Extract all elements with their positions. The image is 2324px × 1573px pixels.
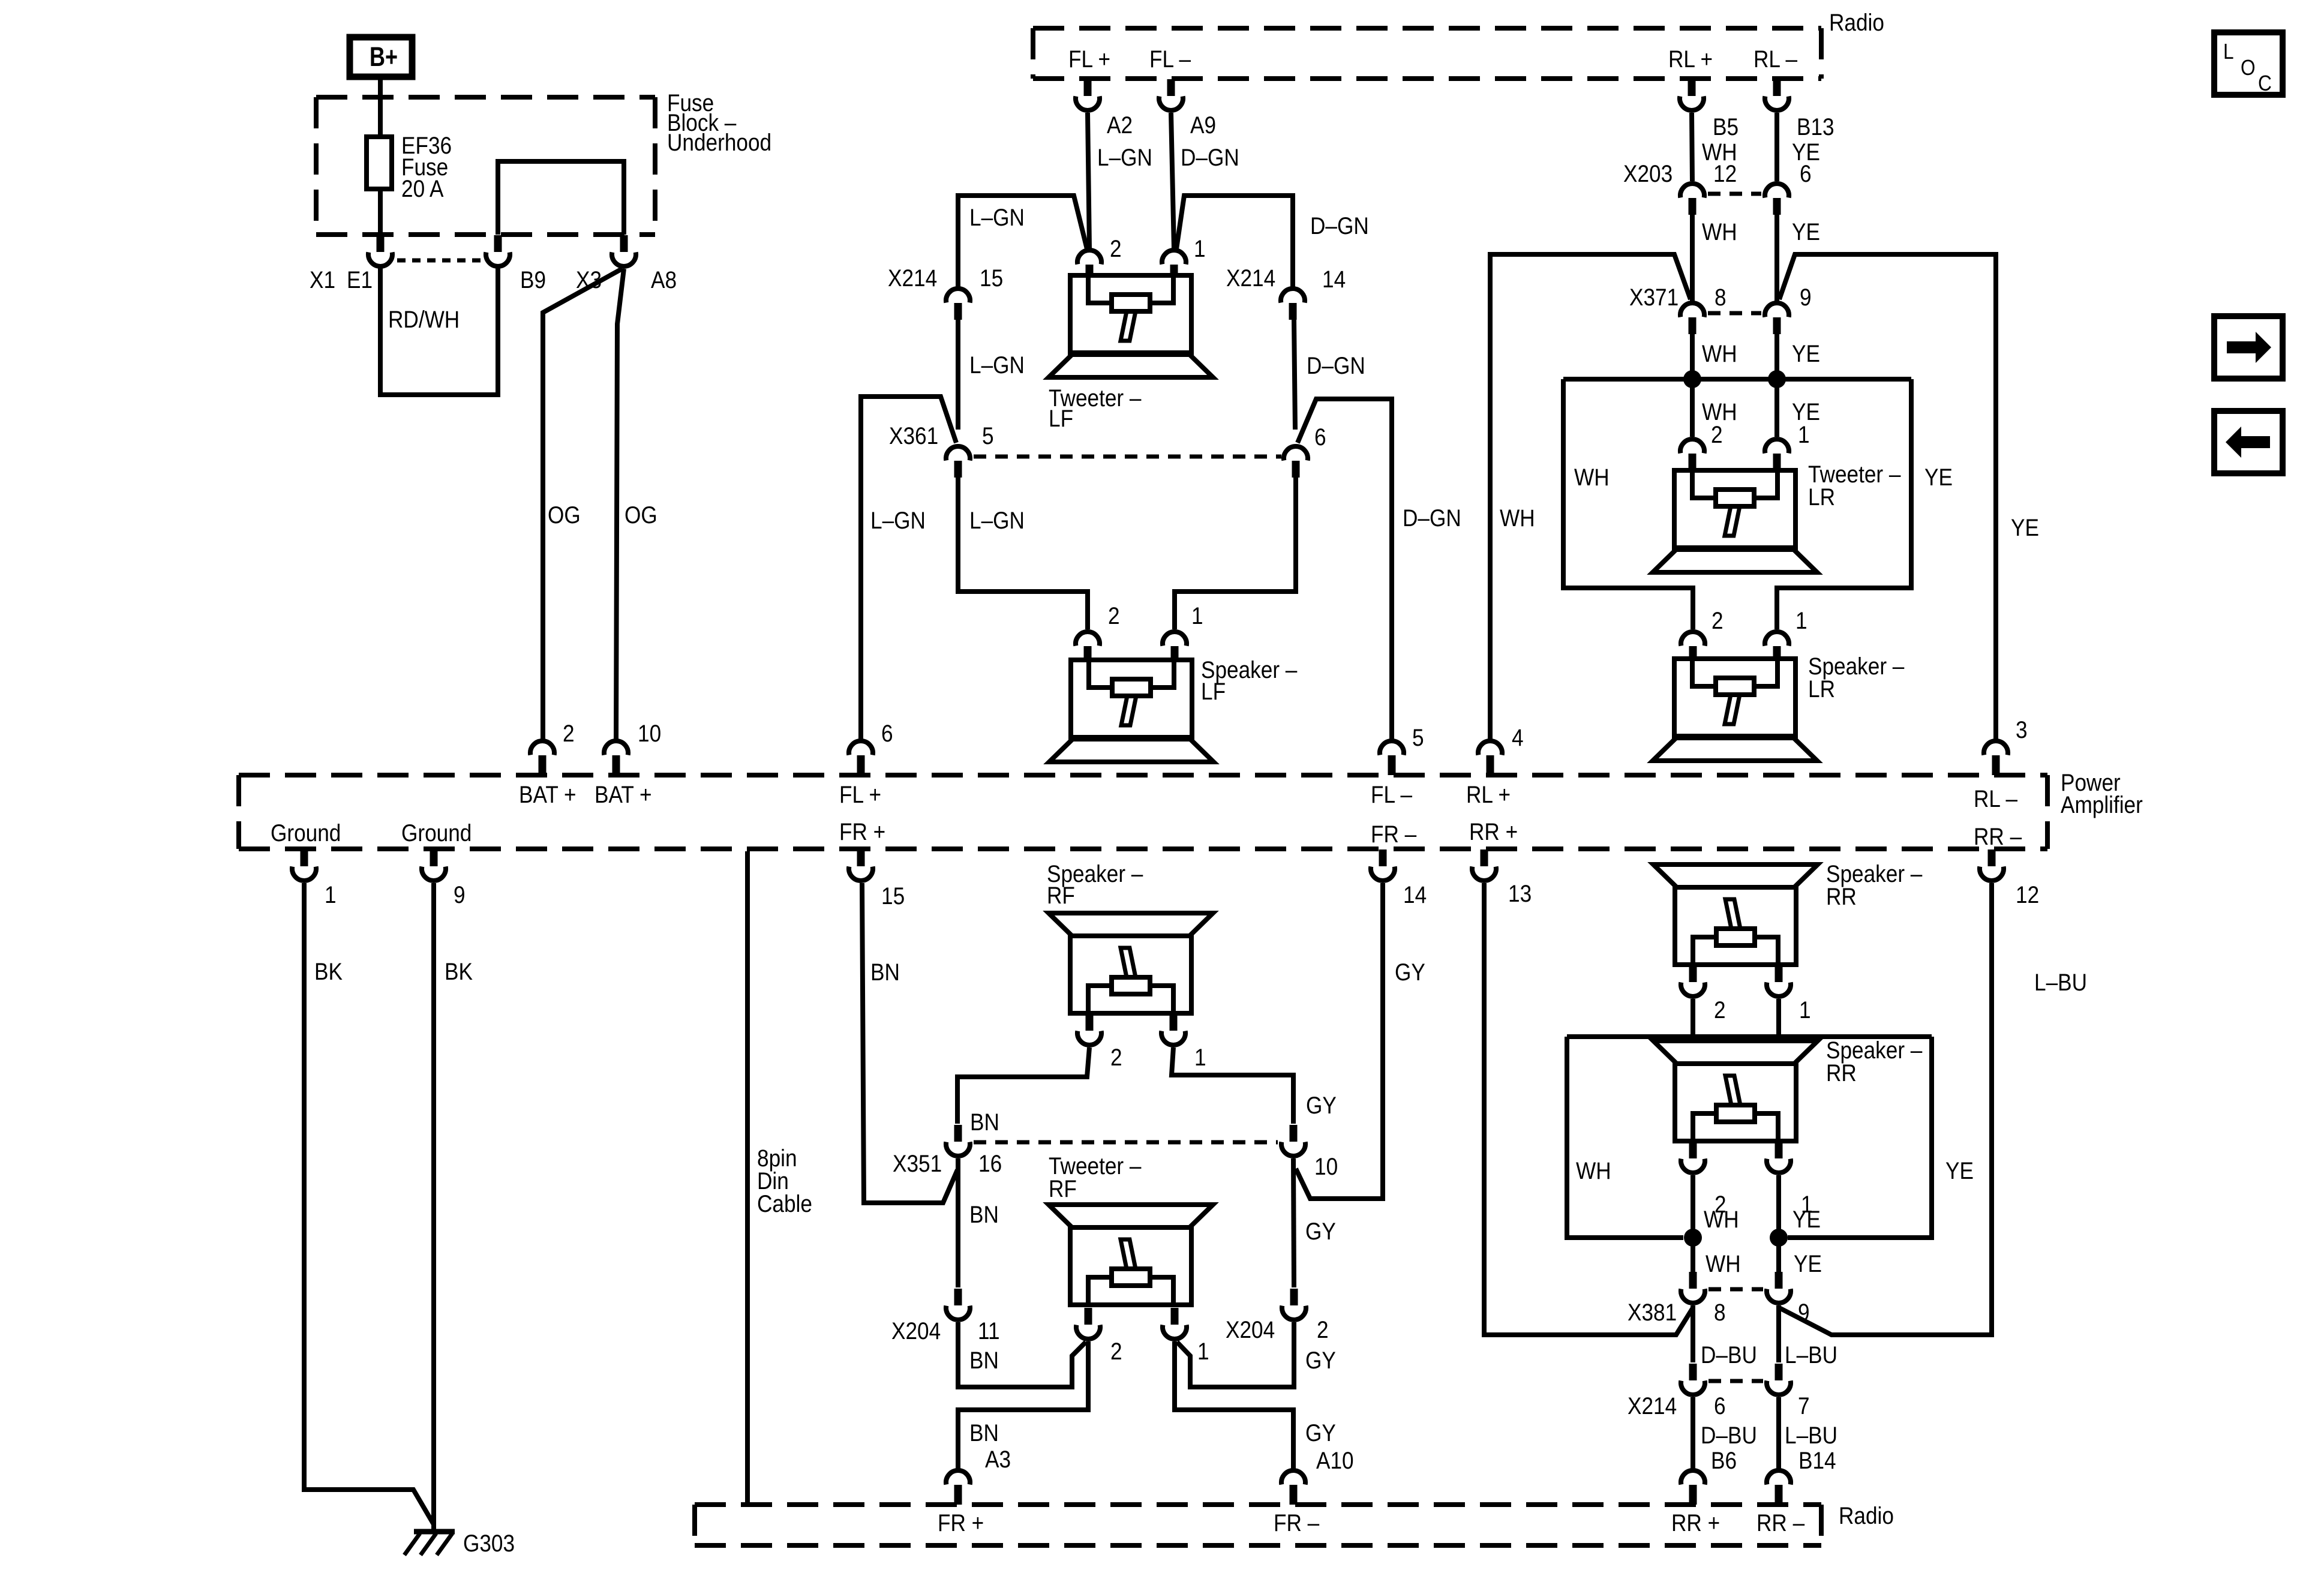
svg-text:L–BU: L–BU [1785,1341,1837,1368]
dashed connector link X361 [974,455,1281,459]
node tweeter LF pin 2 [1077,250,1101,264]
svg-text:2: 2 [563,720,575,747]
power feed B+ symbol [350,37,412,77]
wire BK amp pin 1 to G303 [304,883,434,1524]
svg-text:2: 2 [1110,1338,1122,1365]
svg-text:OG: OG [624,502,657,529]
wire D-GN X214-14 to X361-6 [1294,320,1295,430]
svg-text:X204: X204 [1226,1316,1275,1343]
svg-text:5: 5 [1412,724,1424,751]
svg-text:YE: YE [1792,340,1820,367]
svg-text:B13: B13 [1797,113,1834,140]
svg-text:BN: BN [870,959,900,986]
radio pin A10 FR- [1281,1470,1305,1484]
amp pin 2 BAT+ [530,741,554,755]
wire D-GN tweeter LF pin 1 to X214 pin 14 [1176,196,1293,287]
svg-text:4: 4 [1512,724,1524,751]
svg-text:B9: B9 [520,266,546,293]
wire WH X371-8 to junction [1690,334,1695,379]
svg-text:16: 16 [978,1150,1002,1177]
svg-text:BAT +: BAT + [519,781,576,808]
radio pin RL- [1773,79,1781,96]
svg-text:BK: BK [445,958,473,985]
wire YE junction to tweeter LR pin 1 [1774,379,1779,437]
svg-text:1: 1 [1197,1338,1209,1365]
svg-text:A9: A9 [1190,112,1216,139]
tweeter LF symbol [1070,275,1191,353]
wire YE branch right side RR [1788,1037,1932,1238]
svg-text:G303: G303 [463,1530,515,1557]
wire fuse to X1 [378,189,383,235]
svg-text:15: 15 [881,882,905,909]
svg-text:FL +: FL + [1068,46,1110,73]
radio pin B14 RR- [1767,1470,1791,1484]
wire D-BU X381-8 to X214-6 [1691,1305,1695,1362]
wire BN amp FR+ down [862,883,957,1203]
tweeter RF symbol [1049,1205,1213,1227]
power amplifier dashed box [239,773,2047,778]
wire YE speaker RR lower pin 1 to X381-9 [1776,1175,1781,1273]
svg-text:10: 10 [1314,1153,1338,1180]
node speaker LR pin 2 [1681,632,1705,646]
svg-text:D–BU: D–BU [1701,1341,1757,1368]
svg-text:FL +: FL + [839,781,881,808]
wire GY tweeter RF pin 1 to radio A10 [1175,1341,1293,1469]
wire RR+ amp pin 13 to X381-8 [1484,883,1693,1335]
svg-text:BN: BN [970,1109,999,1136]
svg-text:B14: B14 [1798,1447,1836,1474]
junction dot YE LR [1768,370,1786,388]
svg-text:8: 8 [1714,1299,1726,1326]
node speaker LF pin 1 [1163,632,1187,646]
svg-text:A2: A2 [1107,112,1133,139]
connector X204 pin 2 right [1290,1289,1298,1305]
svg-text:L–GN: L–GN [1097,144,1152,171]
speaker RR upper symbol [1653,864,1818,887]
svg-text:L–GN: L–GN [969,507,1025,534]
svg-text:5: 5 [982,422,994,449]
svg-text:WH: WH [1706,1250,1741,1277]
svg-text:RL –: RL – [1753,46,1797,73]
svg-text:RR: RR [1826,883,1857,910]
connector X1 pin E1 [377,235,385,252]
svg-text:OG: OG [548,502,581,529]
svg-text:2: 2 [1108,602,1120,629]
parallel bus top tweeter LR [1563,377,1911,382]
wire RR- amp pin 12 to X381-9 [1779,883,1992,1335]
junction dot WH LR [1683,370,1701,388]
connector X214 pin 14 [1281,289,1305,302]
svg-text:FL –: FL – [1149,46,1191,73]
radio dashed box top [1033,26,1821,31]
svg-text:1: 1 [325,881,337,908]
wire speaker RR upper pin 1 to bus [1776,999,1781,1037]
wire GY X204-2 to tweeter RF pin 1 [1177,1322,1294,1387]
svg-text:6: 6 [1714,1392,1726,1419]
svg-text:GY: GY [1305,1218,1336,1245]
svg-text:10: 10 [638,720,661,747]
svg-text:L–GN: L–GN [870,507,926,534]
amp pin 4 RL+ [1478,741,1502,755]
svg-text:L–GN: L–GN [969,204,1025,231]
svg-text:BN: BN [969,1347,999,1374]
svg-text:14: 14 [1322,266,1346,293]
wire L-GN tweeter LF pin 2 to X214 pin 15 [958,196,1087,287]
wire OG A8 to amp pin 10 [616,269,624,740]
amp pin 12 RR- [1988,849,1996,866]
wire WH speaker RR lower pin 2 to X381-8 [1691,1175,1695,1273]
svg-text:WH: WH [1500,505,1535,532]
svg-text:2: 2 [1712,607,1724,634]
svg-text:1: 1 [1194,235,1206,262]
svg-text:O: O [2241,56,2256,80]
svg-text:2: 2 [1110,1044,1122,1071]
svg-text:RD/WH: RD/WH [388,306,460,333]
connector X381 pin 8 [1689,1272,1697,1289]
svg-text:FR –: FR – [1371,821,1416,848]
svg-text:6: 6 [881,720,893,747]
svg-text:2: 2 [1110,235,1122,262]
node tweeter LR pin 2 [1680,439,1704,453]
svg-text:WH: WH [1702,340,1737,367]
connector X214 pin 7 lower [1775,1364,1783,1380]
svg-text:6: 6 [1314,424,1326,451]
connector X371 pin 9 [1765,303,1789,317]
amp pin 6 FL+ [849,741,873,755]
svg-text:X204: X204 [891,1317,941,1344]
LOC reference box [2214,32,2283,95]
svg-text:Ground: Ground [271,819,341,846]
svg-text:9: 9 [454,881,466,908]
wire YE radio RL- B13 to X203-6 [1774,113,1779,181]
dashed connector link X214 lower [1709,1379,1763,1383]
wire YE amp RL- to X371-9 [1779,254,1996,740]
connector X351 pin 10 [1290,1125,1298,1142]
svg-text:Radio: Radio [1829,9,1884,36]
radio pin A3 FR+ [946,1470,970,1484]
wire BK amp pin 9 to G303 [431,883,436,1532]
wire WH X203-12 to X371-8 [1690,215,1695,302]
radio dashed box bottom [695,1502,1821,1507]
wire GY speaker RF pin 1 to X351-10 [1172,1047,1293,1124]
svg-text:YE: YE [1792,218,1820,245]
ground G303 symbol [414,1529,455,1535]
svg-text:RF: RF [1049,1175,1077,1202]
wire BN speaker RF pin 2 to X351-16 [957,1047,1089,1124]
wire A9 D-GN radio FL- to tweeter LF pin 1 [1171,113,1174,249]
svg-text:A10: A10 [1316,1447,1354,1474]
svg-text:RL –: RL – [1974,785,2017,812]
wire WH branch left side RR [1567,1037,1683,1238]
dashed connector link X351 [974,1140,1278,1145]
wire WH branch left side LR [1563,379,1693,629]
svg-text:3: 3 [2016,716,2028,743]
connector X361 pin 6 [1284,446,1308,460]
svg-text:D–GN: D–GN [1307,352,1365,379]
svg-text:X214: X214 [1226,265,1275,292]
connector B9 [494,235,502,252]
wire YE branch right side LR [1777,379,1911,629]
radio pin RL+ [1688,79,1696,96]
svg-text:15: 15 [980,265,1003,292]
svg-text:RR –: RR – [1756,1509,1804,1536]
dashed connector link X381 [1709,1287,1763,1292]
amp pin 13 RR+ [1481,849,1488,866]
svg-text:B+: B+ [370,41,398,72]
svg-text:1: 1 [1191,602,1203,629]
speaker LR symbol [1674,659,1795,736]
svg-text:BN: BN [969,1201,999,1228]
node speaker RR upper pin 2 [1689,965,1697,982]
svg-text:YE: YE [1792,1206,1821,1233]
svg-text:RR +: RR + [1671,1509,1720,1536]
fuse block underhood dashed box [316,95,655,100]
amp pin 5 FL- [1380,741,1404,755]
svg-text:X214: X214 [888,265,937,292]
amp pin 14 FR- [1379,849,1387,866]
wire 8pin din cable amp to radio [745,851,750,1503]
connector X361 pin 5 [946,446,970,460]
connector X214 pin 6 lower [1689,1364,1697,1380]
node tweeter LF pin 1 [1162,250,1186,264]
svg-text:L–BU: L–BU [2034,969,2087,996]
wire D-BU X214-6 to radio B6 [1691,1397,1695,1469]
wire BN X351-16 to X204-11 [956,1158,960,1287]
wire L-GN X361-5 to speaker LF pin 2 [958,478,1088,629]
svg-text:FR +: FR + [938,1509,984,1536]
node speaker RF pin 1 [1170,1014,1178,1031]
svg-text:FR +: FR + [839,818,885,845]
svg-text:Radio: Radio [1839,1502,1894,1529]
wire L-BU X381-9 to X214-7 [1776,1305,1781,1362]
arrow next page icon [2214,316,2283,379]
svg-text:WH: WH [1704,1206,1739,1233]
svg-text:RR –: RR – [1974,823,2022,850]
wire WH junction to tweeter LR pin 2 [1690,379,1695,437]
junction dot WH RR [1684,1229,1702,1247]
svg-text:LF: LF [1201,678,1226,705]
svg-text:D–GN: D–GN [1403,505,1461,532]
connector X204 pin 11 [954,1289,962,1305]
node speaker RR lower pin 1 [1775,1142,1783,1158]
speaker LF symbol [1071,660,1192,737]
dotted connector link X1-B9 [397,259,482,263]
svg-text:BN: BN [969,1419,999,1446]
svg-text:BK: BK [314,958,343,985]
svg-text:L–BU: L–BU [1785,1422,1837,1449]
wire WH radio RL+ B5 to X203-12 [1692,113,1692,181]
svg-text:1: 1 [1194,1044,1206,1071]
speaker RR lower symbol [1653,1041,1818,1064]
svg-text:A3: A3 [985,1446,1011,1473]
arrow prev page icon [2214,411,2283,473]
svg-text:C: C [2258,71,2272,95]
wire YE X371-9 to junction [1774,334,1779,379]
amp pin 15 FR+ [857,849,865,866]
wire GY X351-10 to X204-2 [1293,1158,1294,1287]
svg-text:D–BU: D–BU [1701,1422,1757,1449]
svg-text:Ground: Ground [401,819,472,846]
radio pin FL- [1167,79,1175,96]
svg-text:6: 6 [1800,160,1812,187]
node speaker RR upper pin 1 [1775,965,1783,982]
svg-text:X351: X351 [893,1150,942,1177]
svg-text:RF: RF [1047,882,1075,909]
svg-text:1: 1 [1798,421,1810,448]
svg-text:YE: YE [1924,464,1953,491]
dashed connector link X371 [1708,311,1761,316]
wire B+ to fuse EF36 [378,77,383,139]
wire BN tweeter RF pin 2 to radio A3 [958,1341,1088,1469]
svg-text:12: 12 [2016,881,2039,908]
node speaker LR pin 1 [1765,632,1789,646]
svg-text:B5: B5 [1713,113,1739,140]
svg-text:X381: X381 [1628,1299,1677,1326]
wire A2 L-GN radio FL+ to tweeter LF pin 2 [1088,113,1089,249]
svg-text:L–GN: L–GN [969,352,1025,379]
node speaker LF pin 2 [1076,632,1100,646]
svg-text:BAT +: BAT + [594,781,651,808]
svg-text:2: 2 [1714,996,1726,1023]
svg-text:13: 13 [1508,880,1532,907]
svg-text:RL +: RL + [1668,46,1713,73]
svg-text:FL –: FL – [1371,781,1412,808]
svg-text:14: 14 [1403,881,1427,908]
junction dot YE RR [1770,1229,1788,1247]
svg-text:YE: YE [2011,514,2039,541]
node speaker RR lower pin 2 [1689,1142,1697,1158]
svg-text:D–GN: D–GN [1181,144,1239,171]
svg-text:X361: X361 [889,422,938,449]
radio pin B6 RR+ [1681,1470,1705,1484]
dashed connector link X203 [1708,192,1761,196]
svg-text:Cable: Cable [757,1190,812,1217]
connector X381 pin 9 [1775,1272,1783,1289]
wire D-GN X361-6 to speaker LF pin 1 [1175,478,1296,629]
fuse block internal wire B9 to A8 [498,161,624,235]
tweeter LR symbol [1674,470,1795,548]
svg-text:B6: B6 [1711,1447,1737,1474]
wire L-GN amp FL+ to X361-5 [861,397,956,740]
wire BN X204-11 to tweeter RF pin 2 [958,1322,1086,1387]
wire L-GN X214-15 to X361-5 [956,320,960,430]
svg-text:E1: E1 [347,266,373,293]
node speaker RF pin 2 [1086,1014,1094,1031]
fuse EF36 20A element [367,137,392,189]
svg-text:A8: A8 [651,266,677,293]
radio pin FL+ [1084,79,1092,96]
svg-text:2: 2 [1317,1316,1329,1343]
wire GY amp FR- down [1296,883,1383,1199]
svg-text:L: L [2223,40,2234,64]
speaker RF symbol [1049,913,1213,936]
wire D-GN amp FL- to X361-6 [1298,399,1392,740]
svg-text:GY: GY [1306,1092,1337,1119]
amp pin 1 Ground [301,849,308,866]
svg-text:Underhood: Underhood [667,129,771,156]
svg-text:7: 7 [1798,1392,1810,1419]
svg-text:12: 12 [1713,160,1737,187]
svg-text:9: 9 [1798,1299,1810,1326]
svg-text:1: 1 [1799,996,1811,1023]
svg-text:GY: GY [1305,1419,1336,1446]
node tweeter RF pin 1 [1171,1308,1179,1325]
parallel bus top RR [1567,1034,1932,1039]
svg-text:8: 8 [1715,284,1727,311]
svg-text:2: 2 [1711,421,1723,448]
node tweeter LR pin 1 [1765,439,1789,453]
svg-text:GY: GY [1395,959,1425,986]
wire OG A8 to amp pin 2 [543,269,622,740]
svg-text:LR: LR [1808,484,1835,511]
svg-text:D–GN: D–GN [1310,212,1369,239]
wire L-BU X214-7 to radio B14 [1776,1397,1781,1469]
svg-text:X1: X1 [310,266,335,293]
svg-text:RR +: RR + [1469,818,1518,845]
node tweeter RF pin 2 [1085,1308,1092,1325]
connector X371 pin 8 [1680,303,1704,317]
svg-text:RL +: RL + [1466,781,1511,808]
svg-text:X203: X203 [1623,160,1673,187]
svg-text:RR: RR [1826,1059,1857,1086]
wire YE X203-6 to X371-9 [1774,215,1779,302]
wire WH amp RL+ to X371-8 [1490,254,1691,740]
svg-text:YE: YE [1794,1250,1822,1277]
svg-text:WH: WH [1702,218,1737,245]
connector X203 pin 6 [1765,184,1789,197]
svg-text:GY: GY [1305,1347,1336,1374]
svg-text:Amplifier: Amplifier [2061,791,2143,818]
amp pin 9 Ground [430,849,438,866]
svg-text:WH: WH [1576,1157,1611,1184]
svg-text:FR –: FR – [1274,1509,1319,1536]
connector X214 pin 15 [946,289,970,302]
svg-text:LR: LR [1808,676,1835,703]
amp pin 3 RL- [1984,741,2008,755]
amp pin 10 BAT+ [604,741,628,755]
svg-text:YE: YE [1945,1157,1974,1184]
svg-text:LF: LF [1049,405,1073,432]
svg-text:20 A: 20 A [401,175,444,202]
wire speaker RR upper pin 2 to bus [1691,999,1695,1037]
svg-text:X371: X371 [1629,284,1679,311]
wire RD/WH loop E1 to B9 [380,268,498,395]
connector X351 pin 16 [954,1125,962,1142]
svg-text:X214: X214 [1628,1392,1677,1419]
connector X3 pin A8 [620,235,628,252]
svg-text:1: 1 [1795,607,1807,634]
connector X203 pin 12 [1680,184,1704,197]
svg-text:WH: WH [1574,464,1610,491]
svg-text:11: 11 [978,1317,1000,1344]
svg-text:9: 9 [1800,284,1812,311]
